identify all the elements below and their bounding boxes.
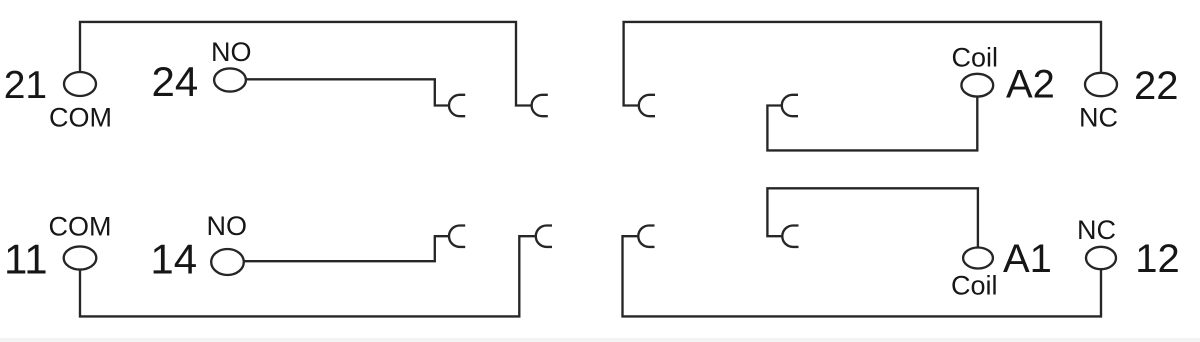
- svg-text:NO: NO: [207, 211, 248, 241]
- svg-text:21: 21: [4, 64, 47, 107]
- svg-text:NC: NC: [1077, 215, 1116, 245]
- svg-text:14: 14: [150, 236, 197, 283]
- svg-text:COM: COM: [49, 212, 112, 242]
- svg-text:12: 12: [1135, 237, 1180, 281]
- svg-text:COM: COM: [49, 103, 112, 133]
- svg-text:Coil: Coil: [951, 271, 998, 301]
- svg-text:NO: NO: [211, 37, 252, 67]
- svg-text:A1: A1: [1003, 237, 1052, 281]
- svg-text:A2: A2: [1006, 63, 1055, 107]
- svg-text:24: 24: [152, 58, 199, 105]
- svg-text:NC: NC: [1079, 103, 1118, 133]
- svg-text:11: 11: [4, 236, 48, 283]
- svg-text:22: 22: [1134, 64, 1179, 108]
- svg-text:Coil: Coil: [952, 43, 999, 73]
